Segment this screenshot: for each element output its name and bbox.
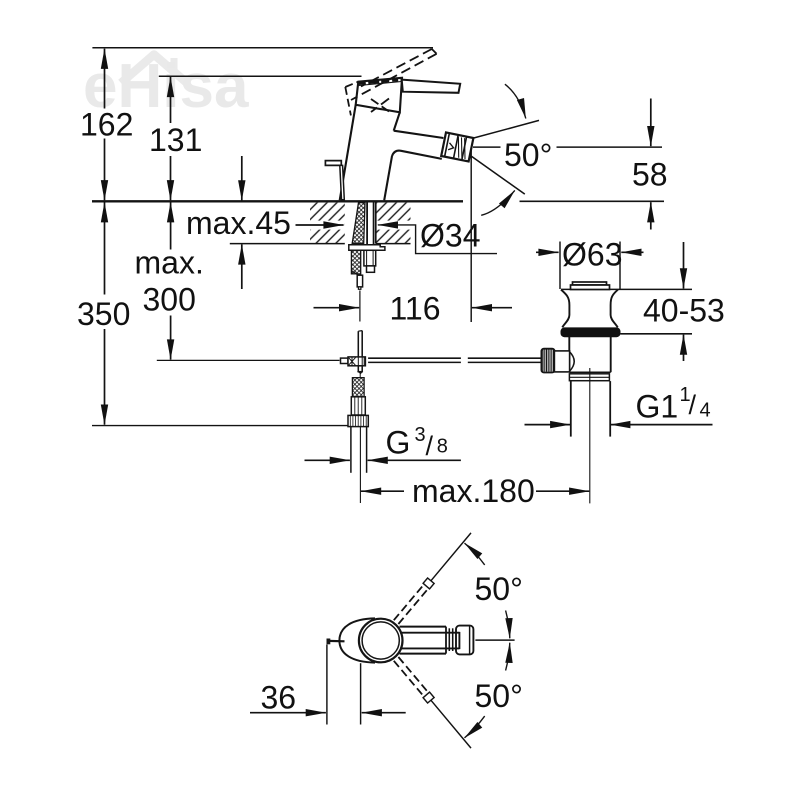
svg-text:50°: 50° <box>504 137 552 173</box>
svg-text:50°: 50° <box>475 678 523 714</box>
svg-text:58: 58 <box>632 157 668 193</box>
svg-text:G: G <box>386 425 411 461</box>
svg-text:max.: max. <box>135 245 204 281</box>
svg-text:3: 3 <box>415 424 426 446</box>
svg-text:131: 131 <box>149 122 202 158</box>
svg-text:36: 36 <box>261 680 297 716</box>
svg-text:/: / <box>426 431 434 461</box>
svg-text:50°: 50° <box>475 571 523 607</box>
svg-text:116: 116 <box>390 291 441 327</box>
svg-text:/: / <box>689 390 697 420</box>
svg-text:max.45: max.45 <box>186 205 291 241</box>
svg-text:300: 300 <box>143 282 196 318</box>
svg-text:350: 350 <box>77 296 130 332</box>
svg-text:40-53: 40-53 <box>643 293 725 329</box>
svg-text:8: 8 <box>437 436 448 458</box>
svg-text:162: 162 <box>80 107 133 143</box>
svg-text:G1: G1 <box>636 389 679 425</box>
svg-text:max.180: max.180 <box>412 473 535 509</box>
svg-text:Ø63: Ø63 <box>562 237 622 273</box>
svg-text:4: 4 <box>700 400 711 422</box>
